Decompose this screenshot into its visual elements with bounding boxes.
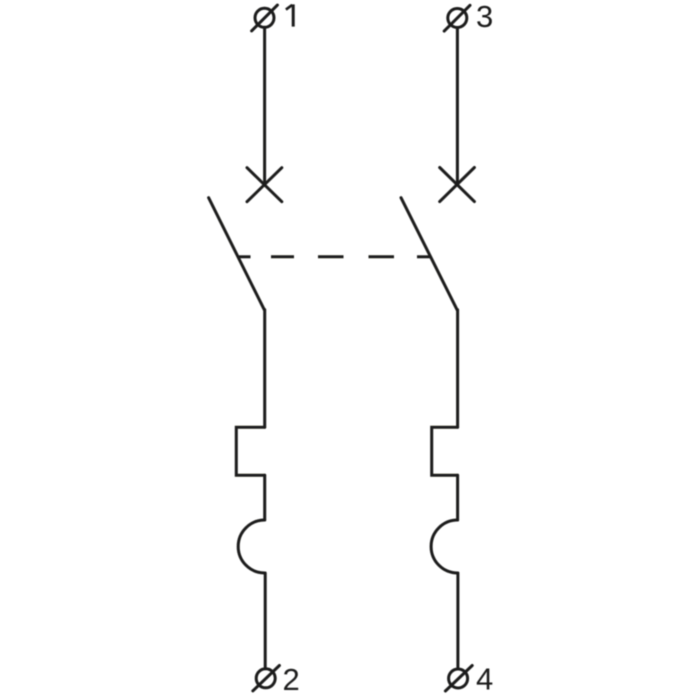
- svg-text:4: 4: [476, 661, 493, 696]
- contact cross X pole 1: [247, 168, 282, 202]
- magnetic trip element pole 2 (semicircle): [431, 520, 458, 573]
- wire pole1 between elements: [263, 475, 266, 520]
- svg-text:3: 3: [476, 0, 493, 34]
- wire pole1 top: [263, 28, 266, 185]
- terminal 1 (circle with slash): [252, 5, 278, 31]
- contact cross X pole 2: [440, 168, 475, 202]
- wire pole2 top: [456, 28, 459, 185]
- wire pole2 below blade: [456, 310, 459, 427]
- magnetic trip element pole 1 (semicircle): [238, 520, 265, 573]
- wire pole1 below blade: [263, 310, 266, 428]
- thermal overload element pole 2: [432, 427, 458, 475]
- wire pole2 between elements: [456, 475, 459, 520]
- mechanical linkage (dashed): [239, 255, 431, 258]
- wire pole1 bottom: [264, 573, 267, 669]
- svg-text:2: 2: [283, 662, 300, 697]
- terminal 4 (circle with slash): [445, 666, 472, 692]
- wire pole2 bottom: [456, 573, 459, 669]
- switch blade pole 2: [401, 198, 457, 310]
- pin label 1: [286, 4, 293, 26]
- switch blade pole 1: [209, 198, 265, 310]
- terminal 3 (circle with slash): [444, 5, 470, 31]
- thermal overload element pole 1: [236, 427, 264, 475]
- terminal 2 (circle with slash): [253, 666, 280, 691]
